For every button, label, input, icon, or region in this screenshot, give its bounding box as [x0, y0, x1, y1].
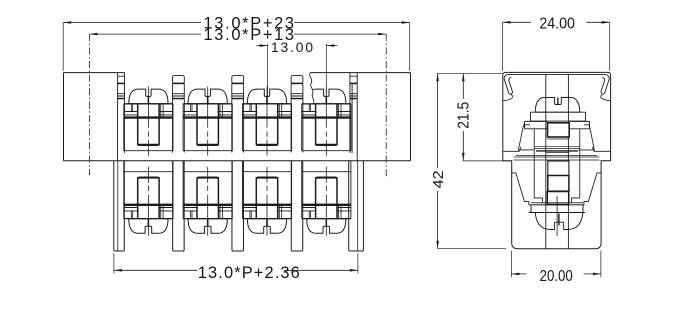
dim 24.00 [503, 21, 610, 71]
wire guard right hook [601, 75, 609, 95]
front body bottom edge of upper band [64, 160, 411, 162]
hatch lines upper [534, 146, 580, 148]
inner taper walls lower body [512, 173, 601, 205]
barrier rib 3 [291, 76, 303, 153]
svg-text:24.00: 24.00 [539, 16, 575, 33]
dim 13.00 line [256, 44, 337, 96]
front body top edge, left segment [64, 72, 125, 74]
dim 13.0*P+2.36 line [114, 253, 358, 274]
leg far right [349, 161, 364, 251]
plate end steps [525, 124, 590, 126]
terminal 1 bottom [124, 161, 173, 236]
side screw head dome [535, 98, 580, 113]
front body top edge, right segment (from break to right end) [310, 72, 410, 74]
leg mid 2 [232, 161, 244, 251]
terminal 2 top [183, 87, 232, 156]
terminal 3 bottom [242, 161, 291, 236]
terminal 4 bottom [302, 161, 351, 236]
terminal 3 top [242, 87, 291, 156]
right end block [410, 73, 412, 161]
barrier rib 1 [173, 76, 185, 153]
centerline right (dash-dot) [385, 34, 387, 178]
dim 21.5 [462, 73, 512, 161]
svg-text:13.00: 13.00 [271, 40, 313, 55]
break squiggle line [310, 72, 314, 103]
lower plate [529, 205, 585, 213]
svg-text:21.5: 21.5 [455, 102, 472, 129]
dim 13.0*P+23 line [63, 21, 410, 71]
svg-text:42: 42 [431, 170, 447, 188]
left step floor and chamfer [503, 147, 521, 152]
svg-text:20.00: 20.00 [540, 268, 573, 285]
terminal 1 top [124, 87, 173, 156]
leg far left [114, 161, 125, 251]
dim 13.0*P+13 line [89, 33, 386, 36]
wire guard left hook [504, 75, 512, 95]
clamp box D [547, 192, 568, 205]
mid partition double line [514, 155, 600, 160]
dim 20.00 [511, 251, 601, 278]
clamp box C [548, 176, 569, 192]
leg mid 3 [291, 161, 303, 251]
lower screw axis [557, 98, 559, 105]
svg-text:13.0*P+2.36: 13.0*P+2.36 [198, 264, 300, 282]
dim 42 [436, 73, 506, 248]
side screw lower dome [535, 213, 583, 230]
left end block [63, 73, 65, 161]
left hook tail to wall [503, 95, 513, 101]
side top plate (segments beside clamp box) [525, 121, 590, 128]
terminal 4 top [302, 87, 351, 156]
clamp box B [548, 161, 569, 176]
side washer band [531, 112, 586, 121]
left end rib [118, 73, 125, 161]
side guide verticals [534, 129, 580, 203]
side body outline [503, 72, 611, 248]
centerline left (dash-dot) [88, 34, 90, 175]
clamp box A [548, 123, 570, 137]
channel verticals [546, 75, 569, 249]
terminal 2 bottom [183, 161, 232, 236]
barrier rib 2 [232, 76, 244, 153]
side top inner line / wire guard strip [508, 74, 606, 76]
break mask over cell 4 dome left shoulder [304, 86, 313, 103]
side upper arms [518, 125, 594, 150]
leg mid 1 [173, 161, 185, 251]
right end rib [350, 73, 357, 161]
right hook tail to wall [601, 95, 611, 101]
right step floor and chamfer [592, 147, 610, 152]
